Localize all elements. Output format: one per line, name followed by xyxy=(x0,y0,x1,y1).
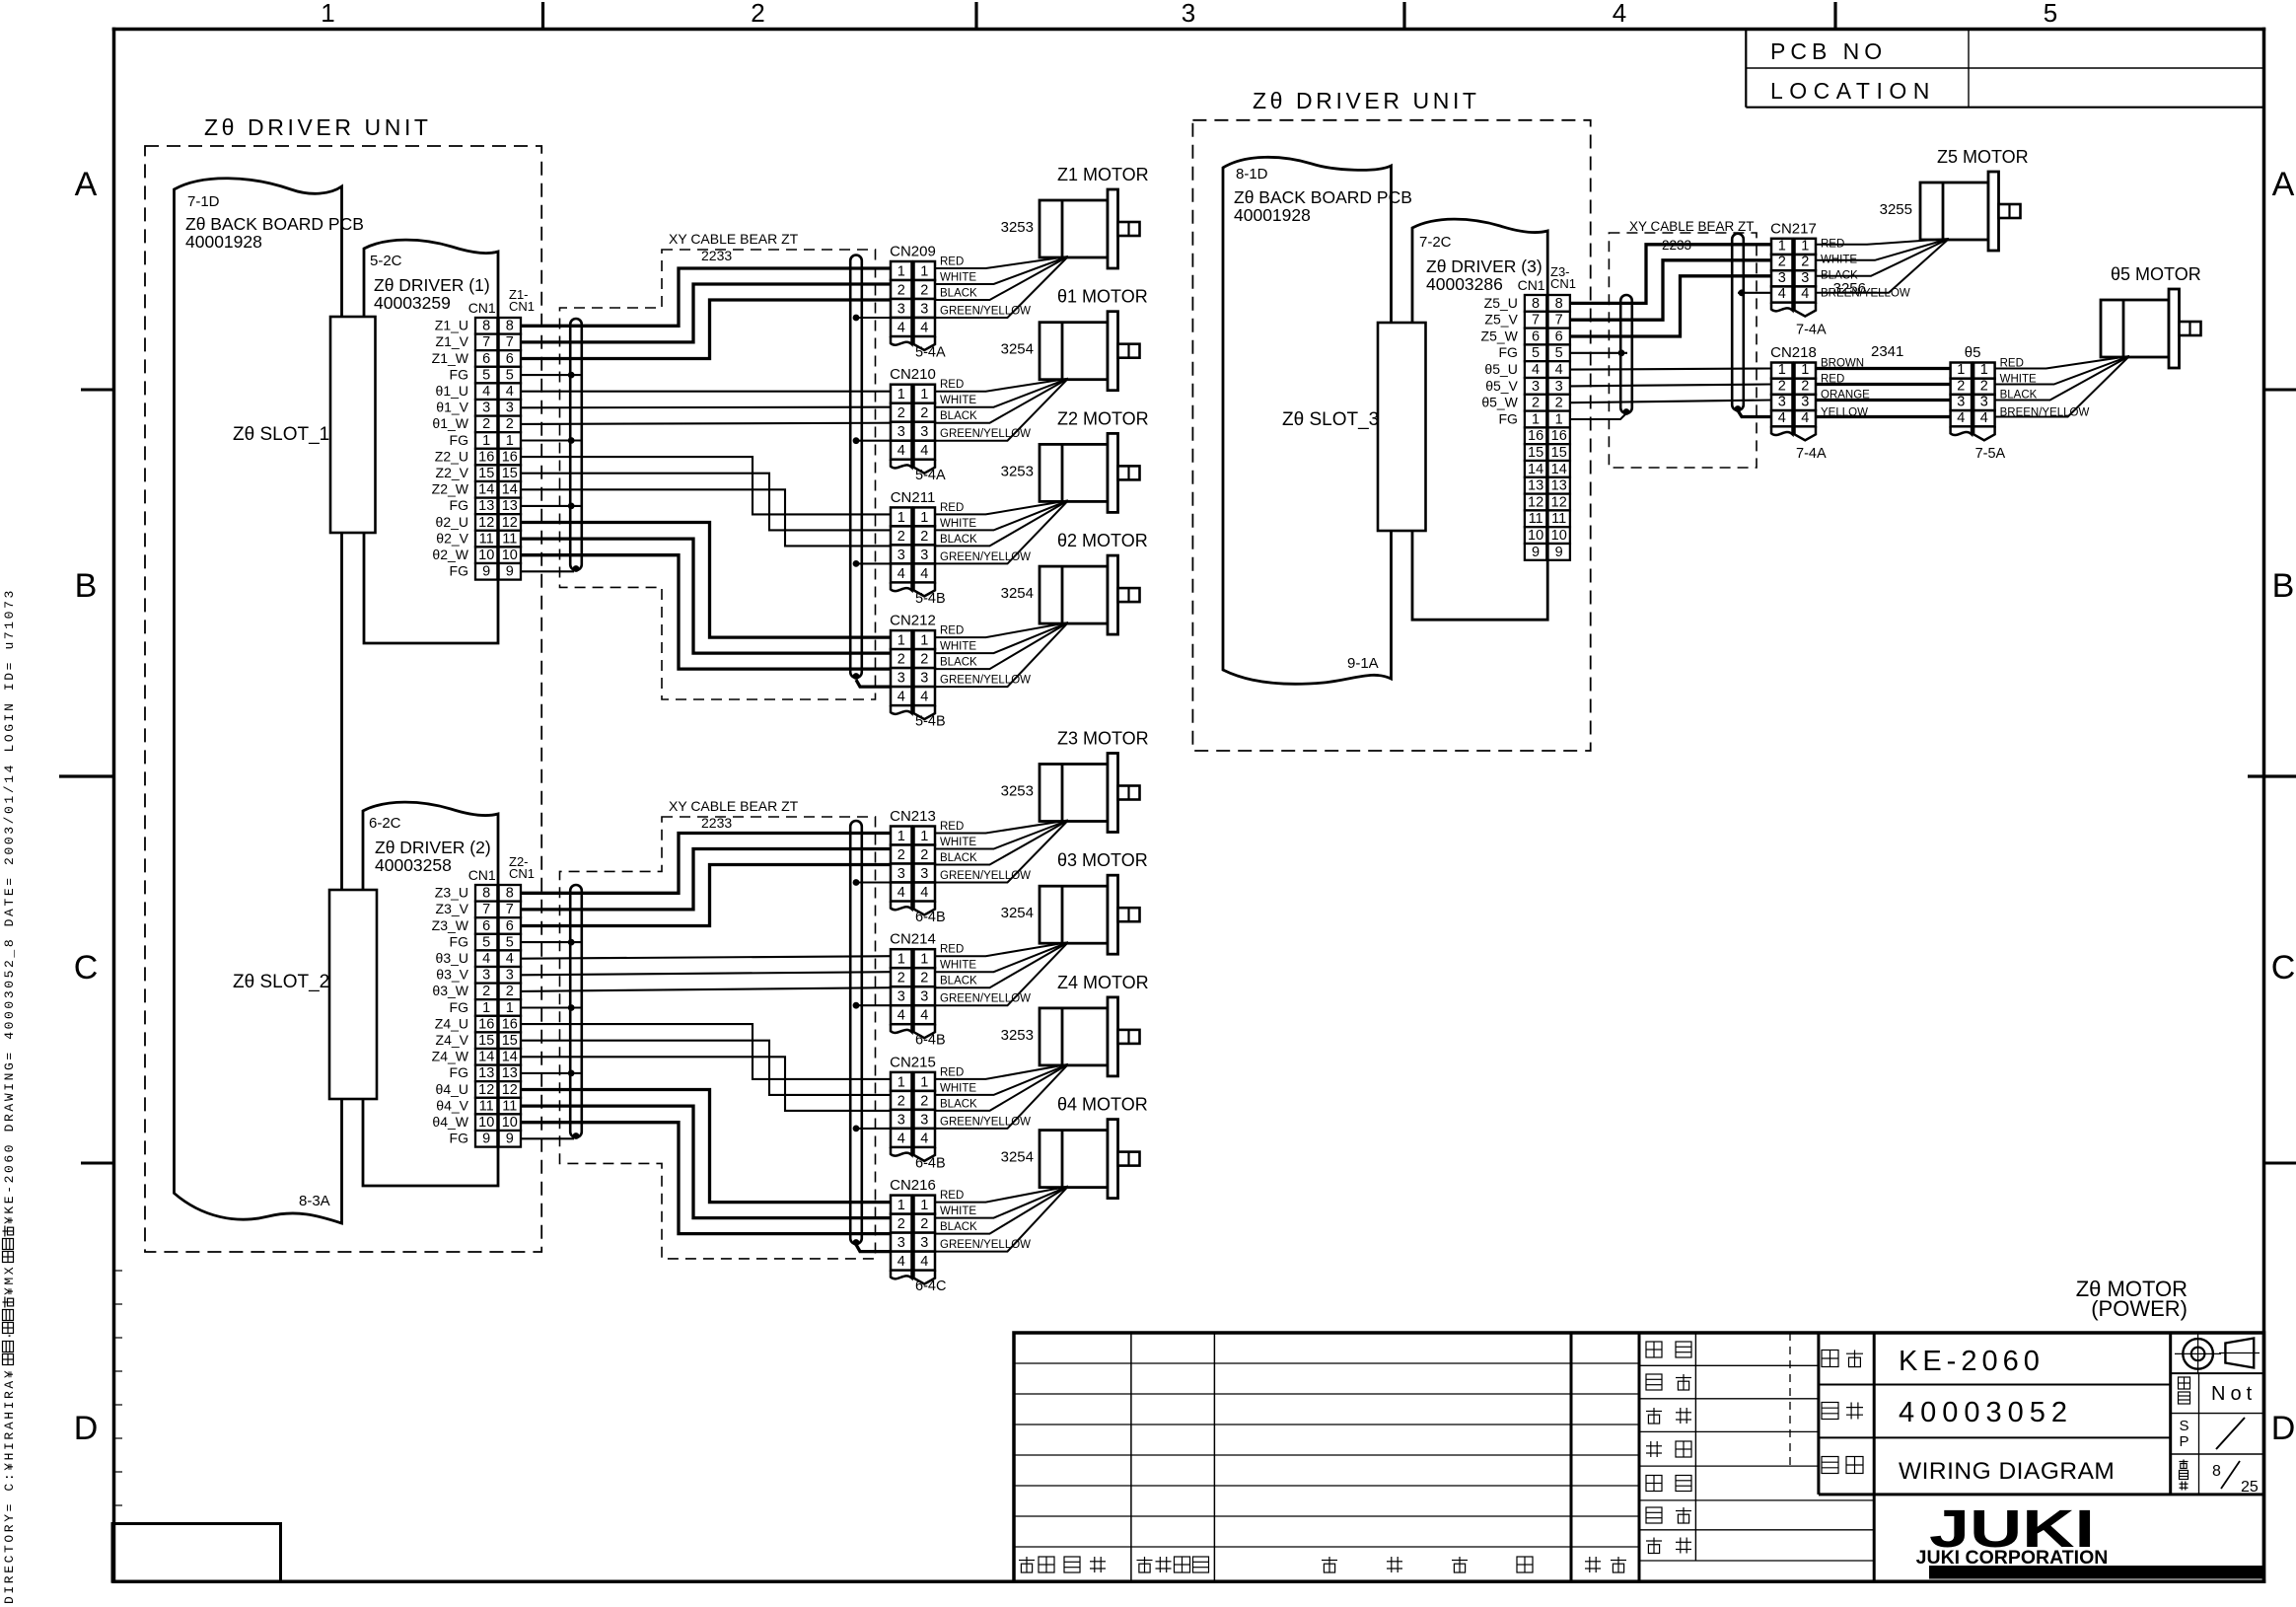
svg-text:14: 14 xyxy=(478,1050,494,1065)
svg-text:CN1: CN1 xyxy=(509,299,535,314)
svg-text:1: 1 xyxy=(1980,362,1988,378)
svg-text:2: 2 xyxy=(920,971,928,986)
motor θ1 MOTOR xyxy=(1040,323,1108,380)
svg-text:2: 2 xyxy=(1980,378,1988,394)
svg-text:2: 2 xyxy=(482,984,490,999)
wire unit2 Z_V to CN row2 xyxy=(521,849,891,910)
Z-theta BACK BOARD PCB (left) outline xyxy=(175,179,342,1223)
svg-text:θ5 MOTOR: θ5 MOTOR xyxy=(2111,264,2201,284)
svg-text:1: 1 xyxy=(920,1198,928,1213)
svg-text:3254: 3254 xyxy=(1001,341,1034,358)
svg-text:3253: 3253 xyxy=(1001,219,1034,236)
Z-theta DRIVER (2) board outline xyxy=(363,802,498,1186)
svg-text:CN215: CN215 xyxy=(890,1054,936,1070)
svg-text:1: 1 xyxy=(897,633,905,649)
motor θ2 MOTOR xyxy=(1040,566,1108,623)
svg-text:4: 4 xyxy=(897,566,905,582)
svg-text:3: 3 xyxy=(1555,379,1563,395)
revision header 記号 日付 変更番号 変更記事 担当 xyxy=(1019,1557,1035,1572)
svg-text:6-4B: 6-4B xyxy=(915,910,946,925)
third angle projection symbol xyxy=(2183,1339,2213,1369)
connector θ5 zigzag break xyxy=(1951,426,1973,435)
wire yellow CN218 row4 from shield tip xyxy=(1738,410,1771,417)
svg-text:Zθ DRIVER UNIT: Zθ DRIVER UNIT xyxy=(1253,88,1480,113)
svg-text:12: 12 xyxy=(1551,494,1567,510)
svg-text:3: 3 xyxy=(897,548,905,563)
svg-text:1: 1 xyxy=(1801,362,1809,378)
svg-text:8-3A: 8-3A xyxy=(299,1193,330,1209)
svg-text:15: 15 xyxy=(502,1033,518,1049)
svg-text:5: 5 xyxy=(2044,0,2057,28)
svg-text:11: 11 xyxy=(479,1098,494,1114)
svg-text:B: B xyxy=(2272,567,2295,605)
svg-text:6: 6 xyxy=(506,918,514,934)
svg-text:15: 15 xyxy=(478,1033,494,1049)
svg-text:4: 4 xyxy=(920,690,928,705)
connector CN217 pin table xyxy=(1771,239,1793,255)
svg-text:BLACK: BLACK xyxy=(940,534,977,546)
svg-text:θ3 MOTOR: θ3 MOTOR xyxy=(1057,850,1148,870)
svg-text:8: 8 xyxy=(482,886,490,902)
svg-text:6-4B: 6-4B xyxy=(915,1033,946,1049)
svg-text:CN214: CN214 xyxy=(890,931,936,948)
svg-text:4: 4 xyxy=(920,1131,928,1146)
svg-text:2: 2 xyxy=(897,283,905,299)
svg-text:8: 8 xyxy=(1555,296,1563,312)
left Z-theta DRIVER UNIT dashed box xyxy=(145,146,541,1252)
svg-text:3: 3 xyxy=(920,866,928,882)
connector CN218 pin table xyxy=(1771,363,1793,379)
svg-text:13: 13 xyxy=(502,1065,518,1081)
wire unit1 theta_V to CN2 row2 xyxy=(521,406,891,409)
svg-text:3255: 3255 xyxy=(1880,201,1912,218)
wire Z5_W to CN217 row3 xyxy=(1570,276,1771,336)
connector CN214 zigzag break xyxy=(891,1024,912,1033)
svg-text:4: 4 xyxy=(506,384,514,400)
connector CN209 zigzag break xyxy=(891,336,912,345)
svg-text:RED: RED xyxy=(940,821,964,833)
connector CN212 pin table xyxy=(891,630,912,649)
wire unit2 FG pin1 to shield xyxy=(521,1006,582,1008)
svg-text:1: 1 xyxy=(1778,239,1786,255)
wire unit1 Z_U to CN row1 xyxy=(521,268,891,326)
svg-text:40003052: 40003052 xyxy=(1899,1397,2073,1428)
svg-text:14: 14 xyxy=(1528,462,1543,477)
svg-text:5-4B: 5-4B xyxy=(915,714,946,730)
svg-text:3: 3 xyxy=(1957,395,1965,410)
svg-text:RED: RED xyxy=(940,1066,964,1078)
svg-text:θ1 MOTOR: θ1 MOTOR xyxy=(1057,287,1148,307)
wire unit2 theta_V to CN2 row2 xyxy=(521,972,891,975)
svg-text:16: 16 xyxy=(502,449,518,465)
svg-text:40003286: 40003286 xyxy=(1426,274,1503,294)
svg-text:7-4A: 7-4A xyxy=(1796,322,1827,337)
svg-text:¥MX: ¥MX xyxy=(2,1265,17,1295)
svg-text:7: 7 xyxy=(482,902,490,917)
svg-text:3: 3 xyxy=(506,968,514,984)
footer box bottom-left xyxy=(112,1524,281,1582)
svg-text:D: D xyxy=(2271,1410,2296,1447)
svg-text:Z1_V: Z1_V xyxy=(436,333,469,349)
svg-text:7: 7 xyxy=(1532,313,1540,329)
svg-text:JUKI CORPORATION: JUKI CORPORATION xyxy=(1916,1547,2109,1569)
cable shield (lower right) xyxy=(850,821,862,1244)
svg-text:WIRING DIAGRAM: WIRING DIAGRAM xyxy=(1899,1458,2115,1485)
wires to motor θ4 MOTOR xyxy=(935,1187,1069,1203)
svg-text:2: 2 xyxy=(920,652,928,668)
svg-text:2: 2 xyxy=(1778,378,1786,394)
svg-text:BLACK: BLACK xyxy=(940,410,977,422)
svg-text:2: 2 xyxy=(1532,396,1540,411)
svg-text:PCB NO: PCB NO xyxy=(1770,38,1887,64)
wire unit2 theta'_W to CN4 row3 xyxy=(521,1123,891,1234)
XY CABLE BEAR ZT dashed outline (lower) xyxy=(560,817,876,1259)
svg-text:Z4_W: Z4_W xyxy=(432,1049,469,1064)
svg-text:4: 4 xyxy=(920,443,928,459)
svg-text:Not: Not xyxy=(2211,1383,2257,1405)
wires CN218 to theta5 connector xyxy=(1816,367,1951,370)
svg-text:2: 2 xyxy=(920,283,928,299)
svg-text:1: 1 xyxy=(897,264,905,280)
svg-text:12: 12 xyxy=(502,515,518,531)
connector CN215 pin table xyxy=(891,1072,912,1091)
svg-text:3: 3 xyxy=(920,671,928,687)
svg-text:6-2C: 6-2C xyxy=(369,815,401,832)
svg-text:2: 2 xyxy=(920,1093,928,1109)
svg-text:LOCATION: LOCATION xyxy=(1770,78,1936,104)
svg-text:Z3 MOTOR: Z3 MOTOR xyxy=(1057,729,1149,749)
wire unit1 green/yellow CN4 row4 from shield tip xyxy=(856,680,891,687)
svg-text:4: 4 xyxy=(897,1008,905,1024)
svg-text:4: 4 xyxy=(1957,410,1965,426)
svg-text:Z5 MOTOR: Z5 MOTOR xyxy=(1937,147,2029,167)
svg-text:WHITE: WHITE xyxy=(940,1082,976,1094)
svg-text:5-4B: 5-4B xyxy=(915,591,946,607)
svg-text:4: 4 xyxy=(920,566,928,582)
wire FG pin5 to shield xyxy=(1570,352,1627,354)
svg-text:WHITE: WHITE xyxy=(940,837,976,848)
connector CN210 zigzag break xyxy=(891,460,912,469)
svg-text:FG: FG xyxy=(450,933,468,949)
wire unit2 theta_U to CN2 row1 xyxy=(521,956,891,959)
svg-text:θ1_V: θ1_V xyxy=(436,400,468,415)
wire theta5_U to CN218 row1 xyxy=(1570,369,1771,370)
svg-text:RED: RED xyxy=(940,502,964,514)
connector CN213 zigzag break xyxy=(891,902,912,911)
svg-text:13: 13 xyxy=(1528,478,1543,494)
svg-text:Z4_V: Z4_V xyxy=(436,1032,469,1048)
svg-text:3253: 3253 xyxy=(1001,1027,1034,1044)
svg-text:CN213: CN213 xyxy=(890,808,936,825)
svg-text:15: 15 xyxy=(1551,445,1567,461)
svg-text:RED: RED xyxy=(940,379,964,391)
svg-text:Z1_U: Z1_U xyxy=(435,318,468,333)
cable shield (upper left) xyxy=(570,319,582,570)
XY CABLE BEAR ZT dashed outline (upper) xyxy=(560,250,876,699)
wire unit2 theta'_V to CN4 row2 xyxy=(521,1106,891,1218)
wire unit1 green/yellow CN3 row4 xyxy=(856,562,891,564)
svg-text:2: 2 xyxy=(1957,378,1965,394)
svg-text:6: 6 xyxy=(1532,329,1540,344)
svg-text:5: 5 xyxy=(506,367,514,383)
wires to motor θ2 MOTOR xyxy=(935,622,1069,637)
svg-text:4: 4 xyxy=(506,951,514,967)
svg-text:Z2_W: Z2_W xyxy=(432,481,469,497)
svg-text:2: 2 xyxy=(920,405,928,421)
svg-text:XY CABLE BEAR ZT: XY CABLE BEAR ZT xyxy=(669,798,799,814)
svg-text:Zθ DRIVER (1): Zθ DRIVER (1) xyxy=(374,275,490,295)
svg-text:4: 4 xyxy=(482,951,490,967)
svg-text:10: 10 xyxy=(478,548,494,563)
Z-theta DRIVER (1) board outline xyxy=(364,240,498,643)
svg-text:7-2C: 7-2C xyxy=(1419,234,1452,251)
svg-text:6: 6 xyxy=(482,918,490,934)
wire Z5_V to CN217 row2 xyxy=(1570,260,1771,320)
svg-text:3: 3 xyxy=(482,968,490,984)
svg-text:1: 1 xyxy=(897,1074,905,1090)
svg-text:8: 8 xyxy=(2212,1463,2221,1480)
svg-text:1: 1 xyxy=(897,1198,905,1213)
svg-text:8: 8 xyxy=(506,319,514,334)
svg-text:1: 1 xyxy=(897,510,905,526)
svg-text:C: C xyxy=(2271,949,2296,986)
svg-text:4: 4 xyxy=(897,321,905,336)
svg-text:14: 14 xyxy=(478,482,494,498)
connector CN211 pin table xyxy=(891,507,912,526)
wire unit2 Z'_W to CN3 row3 xyxy=(521,1057,891,1111)
right Z-theta DRIVER UNIT dashed box xyxy=(1192,120,1590,751)
svg-text:XY CABLE BEAR ZT: XY CABLE BEAR ZT xyxy=(1629,219,1755,234)
svg-text:2: 2 xyxy=(751,0,764,28)
svg-text:θ4 MOTOR: θ4 MOTOR xyxy=(1057,1095,1148,1115)
svg-text:Z3_U: Z3_U xyxy=(435,885,468,901)
svg-text:15: 15 xyxy=(478,466,494,481)
svg-text:WHITE: WHITE xyxy=(940,1205,976,1217)
svg-text:DIRECTORY= C:¥HIRAHIRA¥: DIRECTORY= C:¥HIRAHIRA¥ xyxy=(2,1368,17,1604)
svg-text:FG: FG xyxy=(450,1064,468,1080)
wire theta5_W to CN218 row3 xyxy=(1570,401,1771,403)
svg-text:1: 1 xyxy=(920,829,928,844)
driver CN1 pin table xyxy=(1525,295,1546,312)
wires to motor Z5 MOTOR xyxy=(1816,239,1949,245)
svg-text:11: 11 xyxy=(502,1098,517,1114)
cable shield (upper right) xyxy=(850,256,862,679)
svg-text:9: 9 xyxy=(506,564,514,580)
svg-text:2: 2 xyxy=(920,847,928,863)
svg-text:FG: FG xyxy=(450,999,468,1015)
svg-text:Zθ BACK BOARD PCB: Zθ BACK BOARD PCB xyxy=(185,214,364,234)
svg-text:16: 16 xyxy=(502,1016,518,1032)
motor Z5 MOTOR xyxy=(1920,183,1988,240)
svg-text:5: 5 xyxy=(482,367,490,383)
wires to motor θ3 MOTOR xyxy=(935,942,1069,956)
svg-text:12: 12 xyxy=(502,1082,518,1098)
svg-text:2: 2 xyxy=(920,529,928,545)
svg-text:1: 1 xyxy=(1555,411,1563,427)
svg-text:Zθ SLOT_2: Zθ SLOT_2 xyxy=(233,972,329,992)
svg-text:10: 10 xyxy=(478,1115,494,1131)
svg-text:θ2_W: θ2_W xyxy=(432,547,468,562)
svg-text:1: 1 xyxy=(920,633,928,649)
svg-text:3253: 3253 xyxy=(1001,463,1034,479)
svg-text:5: 5 xyxy=(482,934,490,950)
svg-text:3: 3 xyxy=(1778,395,1786,410)
svg-text:3: 3 xyxy=(920,1235,928,1251)
svg-text:FG: FG xyxy=(450,563,468,579)
svg-text:CN210: CN210 xyxy=(890,366,936,383)
connector CN209 pin table xyxy=(891,261,912,280)
wire unit2 theta'_U to CN4 row1 xyxy=(521,1090,891,1203)
wire theta5_V to CN218 row2 xyxy=(1570,385,1771,387)
svg-text:2: 2 xyxy=(1801,255,1809,270)
svg-text:P: P xyxy=(2179,1433,2188,1450)
svg-text:7: 7 xyxy=(1555,313,1563,329)
svg-text:13: 13 xyxy=(478,1065,494,1081)
svg-text:RED: RED xyxy=(940,256,964,268)
svg-text:WHITE: WHITE xyxy=(940,395,976,406)
wires to motor Z2 MOTOR xyxy=(935,500,1069,514)
wire unit2 green/yellow CN3 row4 xyxy=(856,1128,891,1130)
svg-text:Z1 MOTOR: Z1 MOTOR xyxy=(1057,165,1149,184)
svg-text:1: 1 xyxy=(321,0,334,28)
svg-text:Z4 MOTOR: Z4 MOTOR xyxy=(1057,973,1149,992)
svg-text:4: 4 xyxy=(897,1254,905,1270)
svg-text:2341: 2341 xyxy=(1871,343,1903,360)
svg-text:S: S xyxy=(2179,1418,2188,1434)
svg-text:θ3_V: θ3_V xyxy=(436,967,468,983)
svg-text:4: 4 xyxy=(920,1254,928,1270)
svg-text:5-4A: 5-4A xyxy=(915,345,946,361)
wire unit2 Z'_V to CN3 row2 xyxy=(521,1041,891,1095)
svg-text:13: 13 xyxy=(502,498,518,514)
svg-text:3: 3 xyxy=(1801,395,1809,410)
PCB NO / LOCATION table xyxy=(1745,30,1747,108)
revision table xyxy=(1130,1333,1132,1581)
svg-text:BLACK: BLACK xyxy=(940,976,977,987)
svg-text:1: 1 xyxy=(1957,362,1965,378)
Z-theta BACK BOARD PCB (right) outline xyxy=(1223,157,1392,684)
svg-text:2: 2 xyxy=(897,529,905,545)
svg-text:9: 9 xyxy=(1532,545,1540,560)
svg-text:θ4_V: θ4_V xyxy=(436,1097,468,1113)
wire unit2 FG pin13 to shield xyxy=(521,1072,582,1074)
svg-text:4: 4 xyxy=(920,1008,928,1024)
svg-text:14: 14 xyxy=(502,482,518,498)
column tick marks top xyxy=(541,2,544,30)
wires to motor θ1 MOTOR xyxy=(935,379,1069,392)
svg-text:10: 10 xyxy=(1528,528,1543,544)
svg-text:3: 3 xyxy=(920,1112,928,1128)
wire unit1 Z'_U to CN3 row1 xyxy=(521,457,891,514)
svg-text:Zθ BACK BOARD PCB: Zθ BACK BOARD PCB xyxy=(1234,187,1412,207)
svg-text:1: 1 xyxy=(920,387,928,402)
svg-text:3: 3 xyxy=(920,302,928,318)
svg-text:θ4_U: θ4_U xyxy=(436,1081,468,1097)
svg-text:θ4_W: θ4_W xyxy=(432,1114,468,1130)
svg-text:7: 7 xyxy=(506,334,514,350)
cable shield (right group, left) xyxy=(1620,295,1632,413)
svg-text:2: 2 xyxy=(1778,255,1786,270)
svg-text:7: 7 xyxy=(506,902,514,917)
svg-text:Zθ DRIVER UNIT: Zθ DRIVER UNIT xyxy=(204,114,432,140)
svg-text:4: 4 xyxy=(897,1131,905,1146)
svg-text:40001928: 40001928 xyxy=(185,232,262,252)
svg-text:7-5A: 7-5A xyxy=(1975,446,2006,462)
svg-text:A: A xyxy=(75,166,98,203)
scale 尺度 Not xyxy=(2179,1377,2190,1389)
wire unit1 green/yellow CN1 row4 xyxy=(856,317,891,319)
wire unit2 green/yellow CN2 row4 xyxy=(856,1004,891,1006)
svg-text:θ2_U: θ2_U xyxy=(436,514,468,530)
svg-text:2: 2 xyxy=(897,1093,905,1109)
svg-text:Zθ DRIVER (3): Zθ DRIVER (3) xyxy=(1426,256,1543,276)
svg-text:6: 6 xyxy=(506,351,514,367)
svg-text:BLACK: BLACK xyxy=(940,1098,977,1110)
svg-text:FG: FG xyxy=(1498,344,1517,360)
svg-text:3254: 3254 xyxy=(1001,1149,1034,1166)
svg-text:14: 14 xyxy=(1551,462,1567,477)
svg-text:Z2_V: Z2_V xyxy=(436,465,469,480)
svg-text:4: 4 xyxy=(1801,410,1809,426)
wire unit2 green/yellow CN4 row4 from shield tip xyxy=(856,1245,891,1252)
svg-text:3: 3 xyxy=(1532,379,1540,395)
row tick marks right xyxy=(2264,389,2296,392)
svg-text:16: 16 xyxy=(1528,428,1543,444)
svg-text:1: 1 xyxy=(1532,411,1540,427)
svg-text:8: 8 xyxy=(506,886,514,902)
svg-text:2: 2 xyxy=(1555,396,1563,411)
svg-text:1: 1 xyxy=(920,1074,928,1090)
Z-theta DRIVER (3) board outline xyxy=(1412,219,1547,620)
row tick marks left xyxy=(81,389,114,392)
svg-text:KE-2060: KE-2060 xyxy=(1899,1346,2045,1377)
svg-text:16: 16 xyxy=(478,449,494,465)
svg-text:Z5_U: Z5_U xyxy=(1484,295,1518,311)
wire unit1 theta_U to CN2 row1 xyxy=(521,391,891,393)
cable shield (lower left) xyxy=(570,885,582,1137)
svg-text:CN1: CN1 xyxy=(468,867,496,883)
svg-text:11: 11 xyxy=(502,531,517,547)
wire unit1 FG pin5 to shield xyxy=(521,374,582,376)
svg-text:3: 3 xyxy=(1801,270,1809,286)
svg-text:D: D xyxy=(74,1410,99,1447)
connector CN212 zigzag break xyxy=(891,705,912,714)
svg-text:5: 5 xyxy=(506,934,514,950)
svg-text:16: 16 xyxy=(1551,428,1567,444)
svg-text:3256: 3256 xyxy=(1833,280,1866,297)
svg-text:3: 3 xyxy=(1778,270,1786,286)
svg-text:9: 9 xyxy=(506,1132,514,1147)
wire unit2 Z'_U to CN3 row1 xyxy=(521,1024,891,1079)
wire unit1 Z'_W to CN3 row3 xyxy=(521,489,891,546)
svg-text:14: 14 xyxy=(502,1050,518,1065)
svg-text:θ2_V: θ2_V xyxy=(436,530,468,546)
svg-text:θ5_U: θ5_U xyxy=(1484,361,1517,377)
connector CN210 pin table xyxy=(891,385,912,403)
svg-text:CN1: CN1 xyxy=(1518,277,1545,293)
wire Z5_U to CN217 row1 xyxy=(1570,245,1771,304)
svg-text:A: A xyxy=(2272,166,2295,203)
connector CN213 pin table xyxy=(891,827,912,845)
motor Z1 MOTOR xyxy=(1040,200,1108,257)
motor Z2 MOTOR xyxy=(1040,444,1108,501)
connector CN211 zigzag break xyxy=(891,582,912,591)
svg-text:CN212: CN212 xyxy=(890,613,936,629)
svg-text:WHITE: WHITE xyxy=(940,641,976,653)
svg-text:2: 2 xyxy=(897,405,905,421)
svg-text:FG: FG xyxy=(1498,410,1517,426)
svg-text:1: 1 xyxy=(482,1000,490,1016)
